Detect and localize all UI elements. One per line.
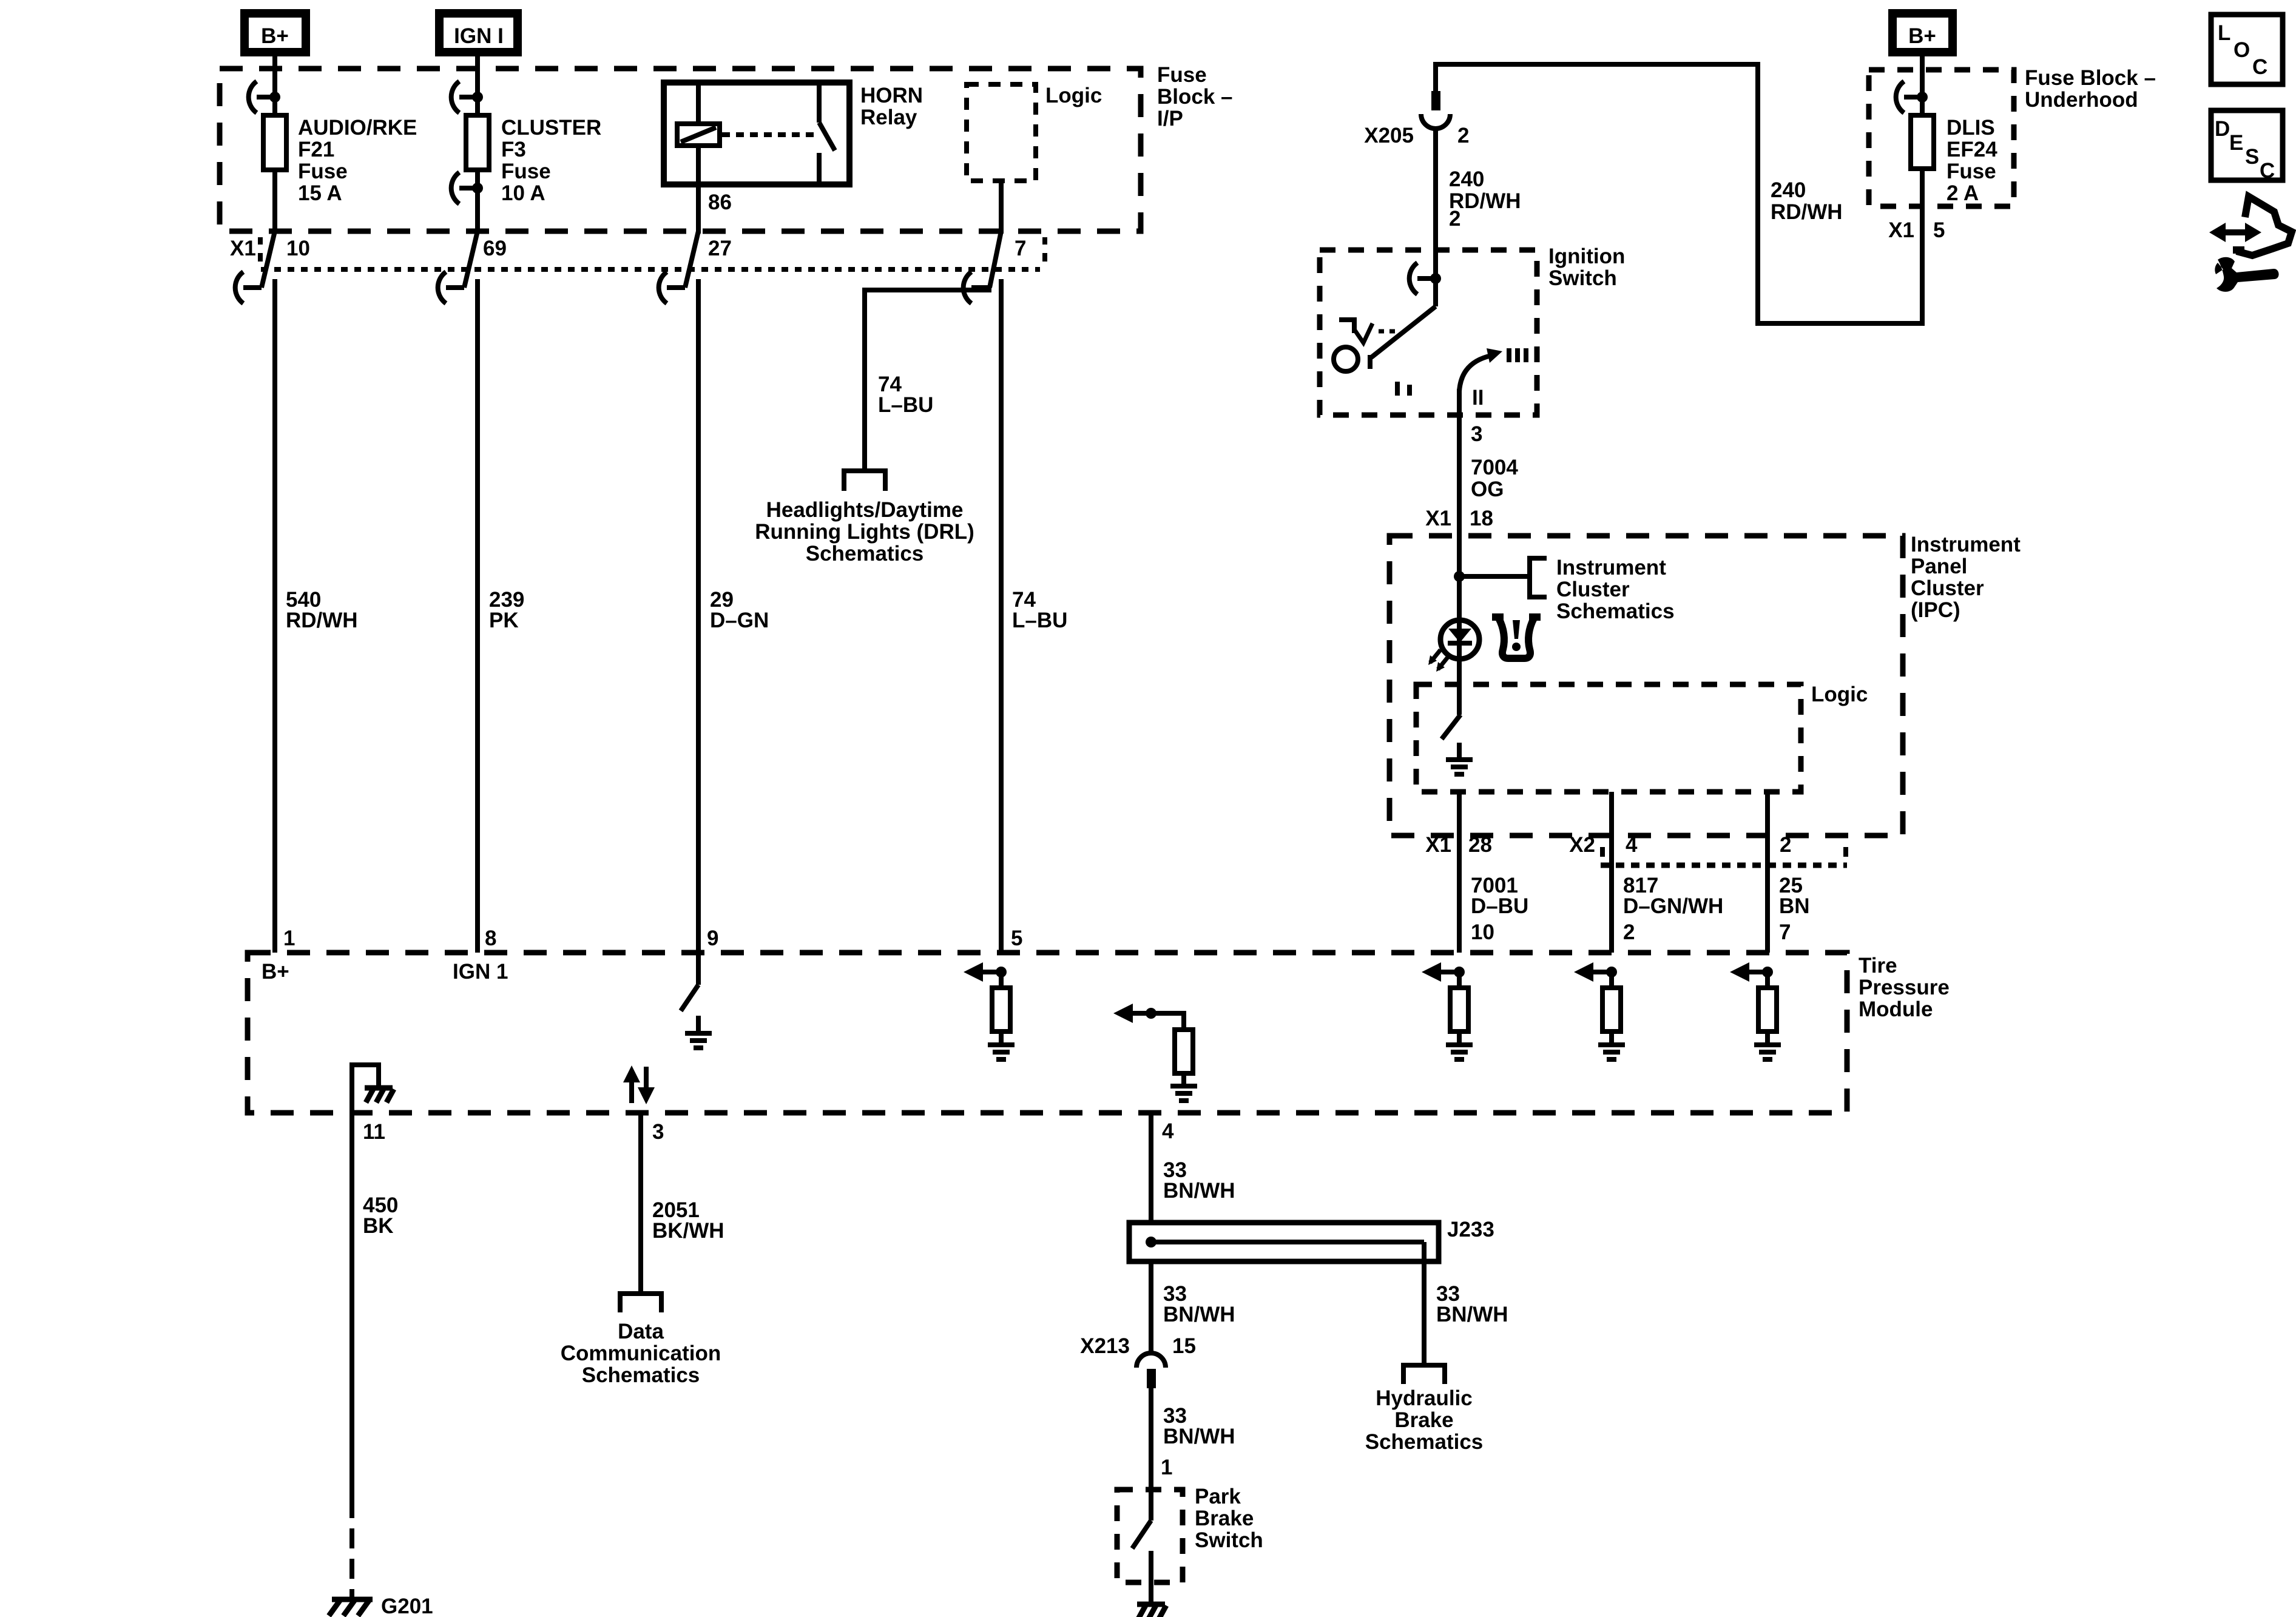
label 240 RD/WH (left) <box>1449 167 1521 213</box>
ignition key symbol <box>1339 320 1395 343</box>
svg-text:D–GN/WH: D–GN/WH <box>1623 894 1723 918</box>
svg-text:Fuse: Fuse <box>1157 63 1207 87</box>
svg-text:II: II <box>1472 386 1484 410</box>
switch to ground at pin 9 <box>681 953 698 1011</box>
position marks I I <box>1397 382 1410 396</box>
svg-text:4: 4 <box>1162 1119 1174 1143</box>
svg-text:Fuse: Fuse <box>1947 160 1996 183</box>
pin 27 label <box>708 237 732 260</box>
svg-text:EF24: EF24 <box>1947 138 1997 161</box>
svg-text:Instrument: Instrument <box>1911 533 2021 556</box>
svg-text:86: 86 <box>708 191 732 214</box>
label Data Communication Schematics <box>561 1320 721 1387</box>
svg-text:Underhood: Underhood <box>2025 88 2138 112</box>
pin 2 label (X2) <box>1780 833 1791 857</box>
svg-text:Schematics: Schematics <box>1556 599 1675 623</box>
power terminal IGN I <box>439 13 518 52</box>
svg-text:BN/WH: BN/WH <box>1163 1179 1235 1203</box>
connector X1 dotted line <box>261 267 1040 272</box>
svg-text:2 A: 2 A <box>1947 181 1979 205</box>
ignition switch OFF contact circle <box>1334 347 1358 371</box>
svg-text:Instrument: Instrument <box>1556 556 1666 579</box>
arrow node on 33 BN/WH wire <box>1113 1004 1156 1023</box>
svg-text:2: 2 <box>1780 833 1791 857</box>
connector X213 male pin <box>1147 1369 1156 1388</box>
service icon hand outline <box>2233 197 2292 255</box>
svg-text:Panel: Panel <box>1911 555 1967 578</box>
relay switch contact <box>819 83 835 184</box>
wire B+ to fuse F21 <box>272 52 277 115</box>
wire jog and clip at pin 27 <box>659 231 698 303</box>
pin 3 label <box>1471 422 1482 446</box>
pin 4 label <box>1626 833 1638 857</box>
pin 69 label <box>483 237 507 260</box>
label X205 <box>1364 124 1414 147</box>
fuse DLIS EF24 2A <box>1911 115 1934 169</box>
svg-text:Data: Data <box>618 1320 664 1343</box>
svg-text:1: 1 <box>283 927 295 950</box>
label Fuse Block - Underhood <box>2025 66 2156 112</box>
svg-text:RD/WH: RD/WH <box>1771 200 1843 224</box>
Ignition Switch dashed box <box>1320 250 1537 415</box>
label 74 L-BU (branch) <box>878 373 933 417</box>
svg-text:F3: F3 <box>501 138 526 161</box>
svg-text:AUDIO/RKE: AUDIO/RKE <box>298 116 417 140</box>
svg-text:BN: BN <box>1779 894 1810 918</box>
svg-text:18: 18 <box>1470 507 1493 530</box>
position marks III <box>1509 348 1526 362</box>
svg-text:Cluster: Cluster <box>1911 576 1984 600</box>
wire IPC internal <box>1457 536 1462 715</box>
label 33 BN/WH (right leg) <box>1436 1282 1508 1326</box>
TPMS warning icon <box>1492 617 1541 658</box>
clip at F21 top with junction dot <box>249 81 280 113</box>
pin 7 label (TPM) <box>1779 920 1791 944</box>
label 74 L-BU (lower) <box>1012 588 1067 632</box>
svg-text:15 A: 15 A <box>298 181 342 205</box>
wire jog and clip at pin 10 <box>235 231 275 303</box>
LOC reference box <box>2211 15 2283 84</box>
svg-text:Ignition: Ignition <box>1548 245 1625 268</box>
clip inside ignition switch with junction dot <box>1410 263 1441 294</box>
ignition switch feed stub <box>1433 250 1438 306</box>
label 450 BK <box>363 1193 398 1238</box>
label Headlights/Daytime Running Lights (DRL) Schematics <box>755 498 974 565</box>
svg-text:3: 3 <box>1471 422 1482 446</box>
ground at TPM pin wire x=2913 <box>1754 1031 1781 1059</box>
svg-text:Block –: Block – <box>1157 85 1233 109</box>
pin 8 label <box>485 927 496 950</box>
LED indicator <box>1428 620 1479 672</box>
svg-text:X1: X1 <box>230 237 256 260</box>
svg-text:Brake: Brake <box>1195 1507 1254 1530</box>
pin 11 label <box>363 1120 385 1144</box>
svg-text:IGN 1: IGN 1 <box>453 960 508 984</box>
svg-text:L: L <box>2218 21 2230 45</box>
label 2051 BK/WH <box>652 1198 724 1243</box>
svg-text:28: 28 <box>1468 833 1492 857</box>
pin 1 label (park brake) <box>1161 1456 1172 1479</box>
svg-text:PK: PK <box>489 609 519 632</box>
connector X1 pin 5 labels (underhood) <box>1888 218 1945 242</box>
wire 25 BN <box>1765 792 1770 953</box>
svg-text:Logic: Logic <box>1811 683 1868 706</box>
svg-text:2: 2 <box>1449 207 1460 231</box>
label G201 <box>381 1595 433 1617</box>
wire B+ to DLIS fuse <box>1920 52 1925 115</box>
off-page bracket to Instrument Cluster Schematics <box>1527 556 1547 597</box>
svg-text:240: 240 <box>1449 167 1484 191</box>
label CLUSTER F3 Fuse 10 A <box>501 116 601 205</box>
connector X205 female terminal <box>1421 114 1450 129</box>
label B+ inside TPM <box>262 960 289 984</box>
svg-text:69: 69 <box>483 237 507 260</box>
connector X2 dotted line <box>1601 847 1847 865</box>
clip below F3 with junction dot <box>451 172 483 204</box>
label IGN 1 inside TPM <box>453 960 508 984</box>
relay coil feed wire <box>696 83 701 124</box>
side resistor on 33 BN/WH <box>1151 1013 1193 1073</box>
wire jog and clip at pin 69 <box>438 231 478 303</box>
svg-text:X213: X213 <box>1080 1334 1130 1358</box>
label HORN Relay <box>860 84 923 129</box>
wire relay pin 86 down <box>696 146 701 234</box>
svg-text:L–BU: L–BU <box>1012 609 1067 632</box>
resistor at TPM pin wire x=2656 <box>1602 972 1621 1031</box>
ground at pin 9 <box>685 1016 712 1048</box>
svg-text:(IPC): (IPC) <box>1911 598 1960 622</box>
relay HORN Relay box <box>664 83 849 184</box>
ignition switch blade <box>1370 306 1436 369</box>
wire 33 BN/WH to park brake switch <box>1149 1388 1153 1521</box>
svg-text:X1: X1 <box>1425 507 1451 530</box>
label 7001 D-BU <box>1471 874 1528 918</box>
svg-text:7: 7 <box>1015 237 1026 260</box>
svg-text:Fuse Block –: Fuse Block – <box>2025 66 2156 90</box>
svg-text:L–BU: L–BU <box>878 393 933 417</box>
pin 2 label (X205) <box>1457 124 1469 147</box>
svg-text:Pressure: Pressure <box>1859 976 1950 999</box>
power terminal B+ (right) <box>1893 13 1953 52</box>
connector X205 male pin <box>1431 91 1440 110</box>
off-page connector to hydraulic brake schematics <box>1403 1363 1445 1384</box>
label 7004 OG <box>1471 456 1518 501</box>
connector X213 female terminal <box>1136 1353 1166 1368</box>
label 29 D-GN <box>710 588 769 632</box>
node junction to instrument cluster schematics <box>1454 571 1530 582</box>
Instrument Panel Cluster dashed box <box>1389 536 1903 836</box>
arrow node at TPM pin wire x=2913 <box>1730 962 1773 982</box>
pin 7 label <box>1015 237 1026 260</box>
svg-text:X205: X205 <box>1364 124 1414 147</box>
service icon wrench <box>2215 257 2278 292</box>
label Tire Pressure Module <box>1859 954 1950 1021</box>
svg-text:BK: BK <box>363 1214 394 1238</box>
logic switch blade <box>1442 715 1460 739</box>
svg-text:BK/WH: BK/WH <box>652 1219 724 1243</box>
ground at TPM pin wire x=2405 <box>1446 1031 1473 1059</box>
pin 2 label (TPM) <box>1623 920 1635 944</box>
svg-text:BN/WH: BN/WH <box>1163 1425 1235 1448</box>
label Instrument Panel Cluster (IPC) <box>1911 533 2021 622</box>
label Ignition Switch <box>1548 245 1625 290</box>
svg-text:E: E <box>2229 131 2243 155</box>
svg-text:240: 240 <box>1771 178 1806 202</box>
chassis ground at park brake switch <box>1137 1604 1166 1617</box>
pin 10 label <box>286 237 310 260</box>
park brake switch lower contact wire <box>1149 1551 1153 1602</box>
Fuse Block - Underhood dashed box <box>1869 70 2014 206</box>
svg-text:X2: X2 <box>1569 833 1595 857</box>
label Logic (fuse block) <box>1045 84 1102 107</box>
connector X1 pin 28 labels <box>1425 833 1492 857</box>
wire 240 RD/WH top run <box>1436 64 1922 323</box>
off-page connector to data communication schematics <box>620 1291 661 1312</box>
svg-text:X1: X1 <box>1888 218 1914 242</box>
wire 450 BK <box>349 1113 354 1518</box>
svg-text:Running Lights (DRL): Running Lights (DRL) <box>755 520 974 544</box>
svg-text:RD/WH: RD/WH <box>286 609 358 632</box>
svg-text:27: 27 <box>708 237 732 260</box>
label DLIS EF24 Fuse 2 A <box>1947 116 1997 205</box>
wire 33 BN/WH left leg <box>1149 1261 1153 1353</box>
svg-text:HORN: HORN <box>860 84 923 107</box>
svg-text:9: 9 <box>707 927 718 950</box>
off-page connector to DRL schematics <box>844 468 885 491</box>
svg-text:5: 5 <box>1933 218 1945 242</box>
svg-text:D–BU: D–BU <box>1471 894 1528 918</box>
svg-text:B+: B+ <box>1908 24 1936 48</box>
svg-text:Schematics: Schematics <box>582 1363 700 1387</box>
position arc to III with arrowhead <box>1459 348 1502 391</box>
arrow node at TPM pin wire x=2405 <box>1422 962 1465 982</box>
label 239 PK <box>489 588 524 632</box>
label Fuse Block - I/P <box>1157 63 1233 130</box>
svg-text:C: C <box>2252 55 2267 79</box>
svg-text:1: 1 <box>1161 1456 1172 1479</box>
ground G201 <box>329 1599 373 1616</box>
svg-text:7: 7 <box>1779 920 1791 944</box>
wire DLIS fuse down <box>1920 169 1925 323</box>
svg-text:10: 10 <box>286 237 310 260</box>
DESC reference box <box>2211 110 2283 183</box>
clip at F3 top with junction dot <box>451 81 483 113</box>
ground on 33 BN/WH resistor <box>1170 1073 1197 1101</box>
fuse F21 AUDIO/RKE 15A <box>263 115 286 170</box>
Logic dashed box in fuse block <box>967 84 1036 181</box>
internal ground lead at pin 11 <box>352 1065 379 1113</box>
label 25 BN <box>1779 874 1810 918</box>
label AUDIO/RKE F21 Fuse 15 A <box>298 116 417 205</box>
wire 33 BN/WH upper <box>1149 1113 1153 1223</box>
connector X213 labels <box>1080 1334 1196 1358</box>
label Hydraulic Brake Schematics <box>1365 1386 1484 1454</box>
wire jog and clip at pin 7 <box>964 231 1001 303</box>
pin 3 label (data link) <box>652 1120 664 1144</box>
wire F3 to X1 pin 69 <box>475 170 480 234</box>
svg-text:Communication: Communication <box>561 1342 721 1365</box>
svg-text:B+: B+ <box>262 960 289 984</box>
wire 450 BK dashed section <box>349 1528 354 1599</box>
label 33 BN/WH (left leg) <box>1163 1282 1235 1326</box>
wire 2051 BK/WH <box>638 1113 643 1294</box>
svg-text:Hydraulic: Hydraulic <box>1376 1386 1473 1410</box>
data link arrows <box>623 1065 655 1104</box>
svg-text:15: 15 <box>1172 1334 1196 1358</box>
pin 2 label (ignition switch) <box>1449 207 1460 231</box>
arrow node at pin 5 <box>964 962 1007 982</box>
ground in logic box <box>1446 743 1473 774</box>
wire 74 L-BU <box>999 279 1004 953</box>
wire branch to DRL schematics <box>865 290 991 471</box>
svg-text:Relay: Relay <box>860 106 917 129</box>
svg-text:7004: 7004 <box>1471 456 1518 479</box>
pin 10 label (TPM) <box>1471 920 1494 944</box>
svg-text:10 A: 10 A <box>501 181 545 205</box>
svg-text:X1: X1 <box>1425 833 1451 857</box>
svg-text:2: 2 <box>1457 124 1469 147</box>
wire ignition RUN output <box>1457 389 1462 536</box>
svg-text:S: S <box>2245 145 2259 169</box>
svg-text:DLIS: DLIS <box>1947 116 1995 140</box>
label II <box>1472 386 1484 410</box>
svg-text:Fuse: Fuse <box>298 160 348 183</box>
park brake switch blade <box>1132 1521 1151 1548</box>
label J233 <box>1447 1218 1494 1241</box>
svg-text:O: O <box>2234 38 2250 62</box>
svg-text:G201: G201 <box>381 1595 433 1617</box>
label 33 BN/WH (upper) <box>1163 1158 1235 1203</box>
svg-text:Module: Module <box>1859 998 1933 1021</box>
svg-text:CLUSTER: CLUSTER <box>501 116 601 140</box>
resistor at TPM pin wire x=2405 <box>1450 972 1468 1031</box>
svg-text:Tire: Tire <box>1859 954 1897 977</box>
ground at pin 5 <box>988 1031 1015 1059</box>
svg-text:OG: OG <box>1471 478 1504 501</box>
label 540 RD/WH <box>286 588 358 632</box>
svg-text:D: D <box>2215 117 2230 141</box>
label 240 RD/WH (right) <box>1771 178 1843 224</box>
pin 4 label <box>1162 1119 1174 1143</box>
svg-text:4: 4 <box>1626 833 1638 857</box>
Park Brake Switch dashed box <box>1117 1490 1183 1582</box>
Fuse Block - I/P dashed box <box>220 69 1141 231</box>
svg-text:J233: J233 <box>1447 1218 1494 1241</box>
clip at DLIS fuse with junction dot <box>1896 81 1928 113</box>
svg-text:8: 8 <box>485 927 496 950</box>
pin 1 label <box>283 927 295 950</box>
svg-text:Switch: Switch <box>1195 1528 1263 1552</box>
svg-text:Logic: Logic <box>1045 84 1102 107</box>
chassis ground symbol at pin 11 <box>365 1088 394 1102</box>
svg-text:C: C <box>2260 159 2275 183</box>
pin 86 label <box>708 191 732 214</box>
connector X1 right end colon <box>1042 237 1047 262</box>
svg-text:2: 2 <box>1623 920 1635 944</box>
ground at TPM pin wire x=2656 <box>1598 1031 1625 1059</box>
label Park Brake Switch <box>1195 1485 1263 1552</box>
pin 5 label <box>1011 927 1022 950</box>
svg-text:Park: Park <box>1195 1485 1241 1508</box>
svg-text:IGN I: IGN I <box>454 24 504 48</box>
relay coil <box>677 124 720 146</box>
pin 9 label <box>707 927 718 950</box>
svg-text:Switch: Switch <box>1548 266 1617 290</box>
label 817 D-GN/WH <box>1623 874 1723 918</box>
svg-text:Schematics: Schematics <box>1365 1430 1484 1454</box>
label 33 BN/WH (lower) <box>1163 1404 1235 1448</box>
Tire Pressure Module dashed box <box>248 953 1847 1113</box>
arrow node at TPM pin wire x=2656 <box>1574 962 1617 982</box>
svg-text:10: 10 <box>1471 920 1494 944</box>
wire 817 D-GN/WH <box>1609 792 1614 953</box>
wire logic pin 7 down <box>999 181 1004 234</box>
wire 540 RD/WH <box>272 279 277 953</box>
svg-text:F21: F21 <box>298 138 334 161</box>
svg-text:Schematics: Schematics <box>806 542 924 565</box>
relay actuation dashed link <box>722 132 817 137</box>
resistor at pin 5 <box>992 972 1010 1031</box>
wire F21 to X1 pin 10 <box>272 170 277 234</box>
wire X205 to ignition switch <box>1433 129 1438 250</box>
label Instrument Cluster Schematics <box>1556 556 1675 623</box>
wire 7001 D-BU <box>1457 792 1462 953</box>
svg-text:D–GN: D–GN <box>710 609 769 632</box>
connector X2 label and colon <box>1569 833 1602 857</box>
Logic dashed box in IPC <box>1416 684 1801 792</box>
wire IGN I to fuse F3 <box>475 52 480 115</box>
connector X1 pin 18 labels <box>1425 507 1493 530</box>
svg-text:BN/WH: BN/WH <box>1436 1303 1508 1326</box>
svg-text:I/P: I/P <box>1157 107 1183 130</box>
connector X1 label and colon <box>230 237 260 262</box>
wire 29 D-GN <box>696 279 701 953</box>
svg-text:BN/WH: BN/WH <box>1163 1303 1235 1326</box>
wire 33 BN/WH right leg <box>1422 1242 1427 1365</box>
fuse F3 CLUSTER 10A <box>466 115 489 170</box>
svg-text:Headlights/Daytime: Headlights/Daytime <box>766 498 964 522</box>
service icon double arrow <box>2209 223 2261 242</box>
svg-text:5: 5 <box>1011 927 1022 950</box>
svg-text:B+: B+ <box>261 24 289 48</box>
resistor at TPM pin wire x=2913 <box>1758 972 1777 1031</box>
label Logic (IPC) <box>1811 683 1868 706</box>
svg-text:Cluster: Cluster <box>1556 578 1630 601</box>
svg-text:3: 3 <box>652 1120 664 1144</box>
power terminal B+ (left) <box>245 13 306 52</box>
splice J233 <box>1129 1223 1439 1261</box>
wire 239 PK <box>475 279 480 953</box>
svg-text:Fuse: Fuse <box>501 160 551 183</box>
svg-text:11: 11 <box>363 1120 385 1144</box>
svg-text:Brake: Brake <box>1394 1408 1453 1432</box>
